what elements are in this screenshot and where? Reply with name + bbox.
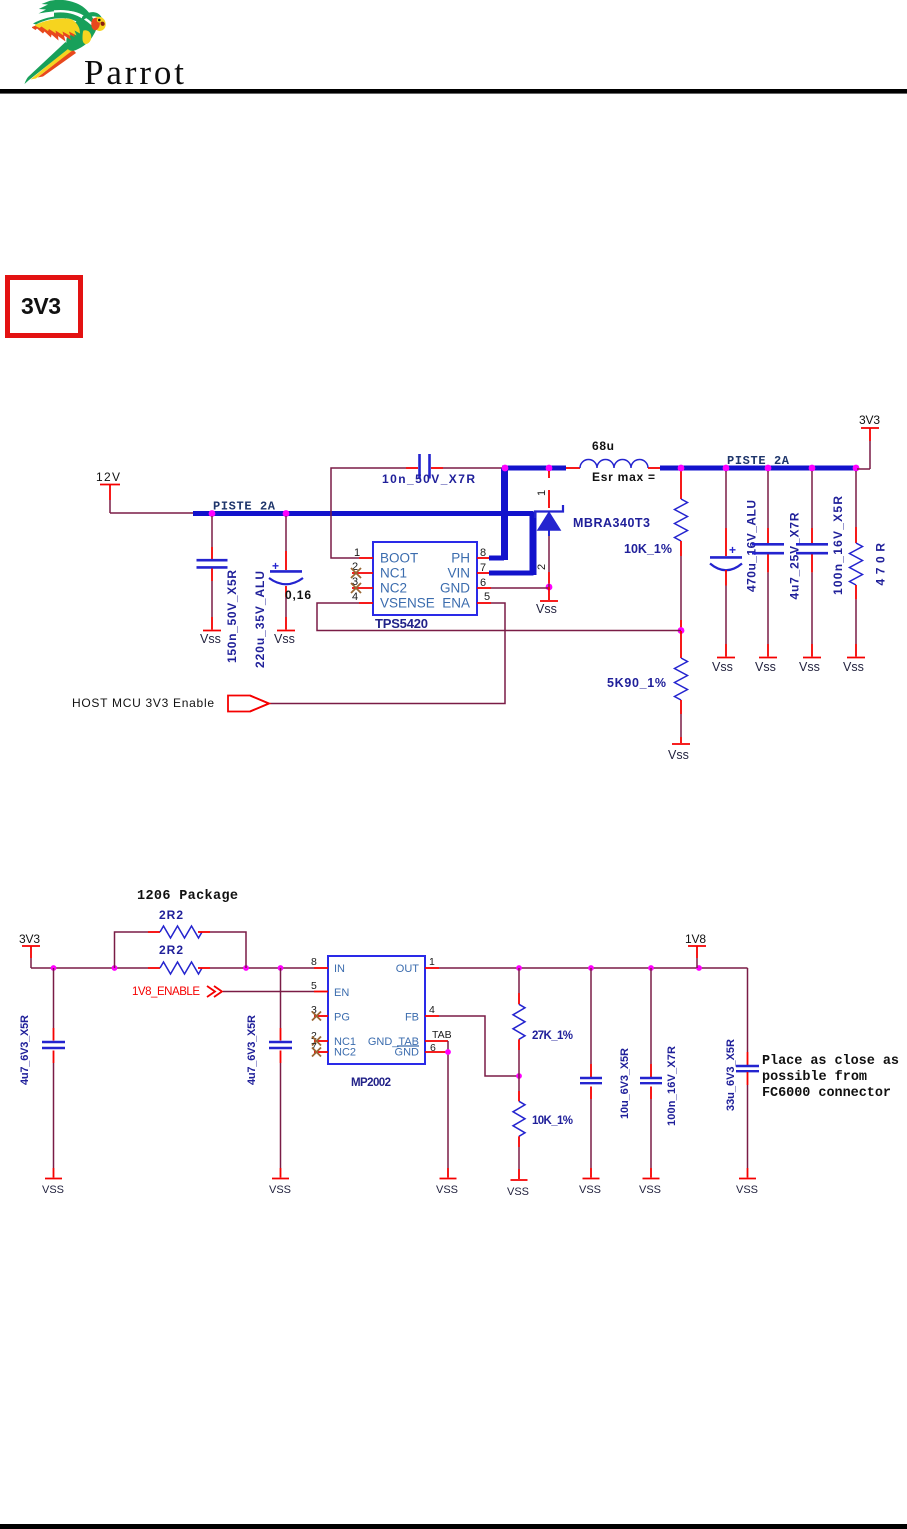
capacitor C 4u7_25V_X7R [752, 471, 802, 644]
white wing separation [54, 11, 93, 25]
svg-text:VIN: VIN [447, 566, 470, 581]
face red patch [91, 18, 100, 30]
resistor R 2R2 bottom [148, 943, 210, 974]
svg-text:3V3: 3V3 [859, 413, 880, 427]
SECTION: schematic1 [72, 413, 888, 762]
svg-text:10K_1%: 10K_1% [624, 542, 672, 556]
svg-text:470u_16V_ALU: 470u_16V_ALU [745, 500, 759, 592]
capacitor C 10n_50V_X7R bootstrap [382, 454, 502, 486]
svg-text:1V8: 1V8 [685, 932, 706, 946]
svg-text:NC2: NC2 [380, 581, 407, 596]
ground Vss [200, 617, 221, 646]
pin 5 EN [311, 980, 328, 992]
svg-text:4: 4 [352, 591, 358, 603]
svg-text:VSS: VSS [579, 1184, 601, 1196]
eye [97, 18, 102, 23]
svg-text:33u_6V3_X5R: 33u_6V3_X5R [725, 1039, 737, 1111]
wire FB loop [439, 1016, 519, 1076]
pin 7 NC2 with no-connect X [311, 1041, 328, 1057]
ground VSS 10u [579, 1168, 601, 1196]
svg-text:12V: 12V [96, 470, 120, 484]
svg-text:470R: 470R [874, 543, 888, 586]
node dot rail3 [243, 965, 249, 971]
svg-text:1V8_ENABLE: 1V8_ENABLE [132, 986, 200, 998]
lower wing green leading edge [33, 16, 67, 25]
ground Vss [274, 617, 295, 646]
svg-text:6: 6 [480, 577, 486, 589]
footer rule [0, 1524, 907, 1529]
svg-text:VSS: VSS [42, 1184, 64, 1196]
svg-text:4u7_6V3_X5R: 4u7_6V3_X5R [19, 1015, 31, 1085]
node dot tab gnd [445, 1049, 451, 1055]
pin 8 IN [311, 956, 328, 968]
node dot diode tap [546, 465, 553, 472]
svg-text:5: 5 [311, 980, 317, 992]
ground VSS divider [507, 1169, 529, 1198]
svg-text:TAB: TAB [432, 1029, 452, 1041]
svg-text:10K_1%: 10K_1% [532, 1115, 573, 1127]
svg-text:4u7_25V_X7R: 4u7_25V_X7R [788, 512, 802, 599]
svg-text:Vss: Vss [755, 660, 776, 674]
capacitor C 100n_16V_X7R [640, 968, 678, 1168]
svg-text:NC1: NC1 [380, 566, 407, 581]
wire thick output rail [660, 466, 857, 471]
svg-text:MBRA340T3: MBRA340T3 [573, 516, 650, 530]
ground Vss out4 [843, 644, 865, 674]
Parrot logo bird [25, 0, 106, 84]
resistor R 10K_1% [624, 470, 688, 630]
node dot fb mid [516, 1073, 522, 1079]
svg-text:FB: FB [405, 1012, 419, 1024]
ground Vss out2 [755, 644, 777, 674]
svg-text:+: + [729, 543, 736, 557]
svg-text:Vss: Vss [843, 660, 864, 674]
power flag 1V8 [685, 932, 706, 968]
lower wing yellow feathers [35, 19, 80, 36]
svg-text:Vss: Vss [799, 660, 820, 674]
svg-text:BOOT: BOOT [380, 551, 418, 566]
wire TAB GND down [447, 1041, 449, 1168]
svg-text:VSS: VSS [269, 1184, 291, 1196]
node dot feedback [678, 627, 685, 634]
regulator U MP2002 [328, 956, 425, 1089]
power flag 12V [96, 470, 120, 513]
pin 4 VSENSE [352, 591, 373, 603]
capacitor C 150n_50V_X5R [197, 516, 240, 663]
node dot fb top [516, 965, 522, 971]
pin 3 NC2 with no-connect X [351, 576, 373, 593]
tail red stripe [38, 50, 77, 78]
capacitor C 470u_16V_ALU polarized [710, 471, 759, 644]
wire BOOT loop [331, 468, 406, 558]
svg-text:VSS: VSS [507, 1186, 529, 1198]
power flag 3V3 input [19, 932, 40, 968]
resistor R 27K_1% [513, 968, 573, 1076]
svg-text:8: 8 [311, 956, 317, 968]
svg-text:Vss: Vss [274, 632, 295, 646]
node dot [209, 510, 216, 517]
svg-text:EN: EN [334, 987, 349, 999]
diode D MBRA340T3 schottky [535, 471, 650, 584]
svg-text:4: 4 [429, 1004, 435, 1016]
upper wing green [39, 0, 95, 25]
svg-text:OUT: OUT [396, 963, 420, 975]
svg-text:7: 7 [480, 562, 486, 574]
wire parallel branch [115, 932, 247, 968]
wire VSENSE feedback [317, 603, 681, 631]
capacitor C 10u_6V3_X5R [580, 968, 631, 1168]
svg-text:1: 1 [536, 490, 548, 496]
capacitor C 33u_6V3_X5R [725, 968, 759, 1168]
capacitor C 4u7_6V3_X5R second [246, 968, 292, 1168]
wire GND pin to diode gnd [491, 584, 549, 588]
svg-text:Esr max =: Esr max = [592, 470, 655, 484]
node dot out1 [678, 465, 685, 472]
thigh yellow patch [83, 30, 92, 44]
svg-text:2R2: 2R2 [159, 908, 183, 922]
pin TAB [425, 1029, 452, 1041]
node dot diode gnd [546, 584, 553, 591]
svg-text:TPS5420: TPS5420 [375, 616, 428, 631]
pin 6 GND [477, 577, 491, 589]
node dot 10u [588, 965, 594, 971]
resistor R 470R [850, 471, 888, 644]
header rule [0, 89, 907, 94]
ground VSS 33u [736, 1168, 758, 1196]
svg-text:VSS: VSS [736, 1184, 758, 1196]
node dot switch [502, 465, 509, 472]
tail yellow stripe [31, 47, 74, 80]
wire 12V to rail [110, 512, 194, 514]
svg-text:ENA: ENA [442, 596, 470, 611]
svg-text:Place as close as: Place as close as [762, 1054, 899, 1069]
connector HOST MCU 3V3 Enable [72, 696, 269, 712]
capacitor C 4u7_6V3_X5R left [19, 968, 65, 1168]
power flag 3V3 output [857, 413, 880, 469]
pin 8 PH [477, 547, 491, 559]
node dot rail4 [278, 965, 284, 971]
svg-text:10n_50V_X7R: 10n_50V_X7R [382, 472, 475, 486]
head crown green [82, 12, 103, 21]
ground Vss out3 [799, 644, 821, 674]
node dot out4 [809, 465, 816, 472]
ground VSS second [269, 1168, 291, 1196]
node dot out2 [723, 465, 730, 472]
ground Vss 5K90 [668, 737, 690, 762]
resistor R 10K_1% lower [513, 1076, 573, 1169]
lower wing red feathers [32, 22, 75, 42]
pin 6 GND [425, 1042, 448, 1054]
inductor L 68u [566, 439, 662, 484]
svg-text:Vss: Vss [536, 602, 557, 616]
svg-text:1: 1 [354, 547, 360, 559]
svg-text:NC2: NC2 [334, 1047, 356, 1059]
net label 1V8_ENABLE [132, 986, 314, 998]
svg-text:PISTE 2A: PISTE 2A [727, 454, 790, 468]
node dot 1V8 [696, 965, 702, 971]
beak [101, 22, 105, 26]
wire ENA to enable connector [270, 603, 505, 704]
body green [66, 17, 96, 51]
pin 5 ENA [477, 591, 491, 603]
ground Vss out1 [712, 644, 735, 674]
wire thick switch node [502, 466, 566, 471]
node dot rail1 [51, 965, 57, 971]
svg-text:PG: PG [334, 1012, 350, 1024]
wire thick input rail [193, 511, 534, 516]
svg-text:HOST MCU 3V3 Enable: HOST MCU 3V3 Enable [72, 696, 214, 710]
node dot [283, 510, 290, 517]
pin 2 NC1 with no-connect X [351, 561, 373, 578]
svg-text:MP2002: MP2002 [351, 1077, 391, 1089]
svg-text:FC6000 connector: FC6000 connector [762, 1086, 891, 1101]
svg-text:6: 6 [430, 1042, 436, 1054]
svg-text:150n_50V_X5R: 150n_50V_X5R [225, 570, 239, 663]
node dot rail2 [112, 965, 118, 971]
svg-text:2: 2 [536, 564, 548, 570]
svg-text:VSENSE: VSENSE [380, 596, 435, 611]
wire thick VIN to input rail [489, 571, 534, 576]
svg-text:8: 8 [480, 547, 486, 559]
svg-text:27K_1%: 27K_1% [532, 1030, 573, 1042]
pin 7 VIN [477, 562, 491, 574]
svg-text:PH: PH [451, 551, 470, 566]
capacitor C 100n_16V_X5R [796, 471, 845, 644]
svg-text:GND: GND [395, 1047, 420, 1059]
svg-text:3V3: 3V3 [21, 293, 61, 319]
svg-text:Vss: Vss [712, 660, 733, 674]
svg-text:VSS: VSS [639, 1184, 661, 1196]
pin 4 FB [425, 1004, 439, 1016]
ground VSS left [42, 1168, 64, 1196]
svg-text:IN: IN [334, 963, 345, 975]
wire main 3V3 rail [31, 967, 314, 969]
svg-text:4u7_6V3_X5R: 4u7_6V3_X5R [246, 1015, 258, 1085]
node dot out3 [765, 465, 772, 472]
op-amp U? TPS5420 regulator IC [373, 542, 477, 631]
resistor R 2R2 top [148, 908, 210, 938]
svg-text:10u_6V3_X5R: 10u_6V3_X5R [619, 1048, 631, 1119]
svg-text:Vss: Vss [200, 632, 221, 646]
pin 3 PG with no-connect X [311, 1004, 328, 1021]
svg-text:100n_16V_X7R: 100n_16V_X7R [666, 1046, 678, 1126]
ground Vss diode [536, 587, 558, 616]
svg-text:GND: GND [440, 581, 470, 596]
resistor R 5K90_1% [607, 631, 688, 737]
pin 2 NC1 with no-connect X [311, 1030, 328, 1046]
svg-text:Parrot: Parrot [84, 53, 184, 92]
svg-text:68u: 68u [592, 439, 614, 453]
tail green stripe [25, 42, 71, 84]
svg-text:100n_16V_X5R: 100n_16V_X5R [831, 496, 845, 595]
svg-text:Vss: Vss [668, 748, 689, 762]
svg-text:3V3: 3V3 [19, 932, 40, 946]
svg-text:2R2: 2R2 [159, 943, 183, 957]
pin 1 OUT [425, 956, 439, 968]
shoulder green under white line [54, 12, 94, 33]
ground VSS 100n [639, 1168, 661, 1196]
svg-text:VSS: VSS [436, 1184, 458, 1196]
ground VSS tab [436, 1168, 458, 1196]
svg-text:220u_35V_ALU: 220u_35V_ALU [253, 571, 267, 668]
pin 1 BOOT [354, 547, 373, 559]
svg-text:possible from: possible from [762, 1070, 867, 1085]
red 3V3 page box [8, 278, 81, 336]
wire OUT rail [439, 967, 748, 969]
SECTION: header [0, 0, 907, 335]
svg-text:1206 Package: 1206 Package [137, 889, 238, 904]
SECTION: schematic2 [19, 889, 899, 1198]
svg-text:1: 1 [429, 956, 435, 968]
svg-text:0,16: 0,16 [285, 588, 311, 602]
svg-text:5: 5 [484, 591, 490, 603]
capacitor C 220u_35V_ALU polarized [253, 516, 311, 668]
node dot 100n [648, 965, 654, 971]
face yellow [93, 17, 105, 31]
note Place as close as possible [762, 1054, 899, 1101]
node dot out5 [853, 465, 860, 472]
svg-text:5K90_1%: 5K90_1% [607, 676, 666, 690]
wire thick PH to switch node [489, 556, 504, 561]
